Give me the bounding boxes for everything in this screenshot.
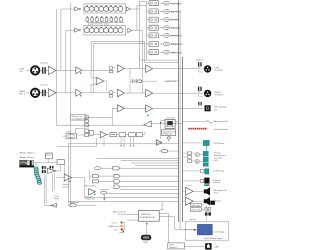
wire main level out — [123, 214, 139, 220]
svg-text:GPU: GPU — [214, 160, 219, 162]
svg-text:amp in: amp in — [119, 232, 124, 234]
svg-text:Main Level Out: Main Level Out — [113, 210, 127, 213]
svg-text:Phono: Phono — [20, 157, 27, 159]
send tag row 3 — [92, 180, 120, 184]
legend wires — [123, 223, 125, 230]
wire speaker A — [183, 185, 204, 191]
external preamp block — [183, 178, 210, 186]
wire master controller leads — [159, 201, 183, 243]
capacitor C2 input 2 coupling — [42, 90, 46, 97]
wire channel1 to sum — [124, 68, 145, 70]
LCD display screen — [197, 224, 212, 235]
svg-text:USB: USB — [143, 242, 148, 244]
bus line 6 — [120, 175, 179, 177]
op-amp U3 input 1 preamp — [48, 66, 56, 74]
svg-text:Gain Reduction: Gain Reduction — [214, 128, 229, 131]
gps ring block — [183, 169, 209, 174]
wire audio interface to lan — [184, 245, 205, 247]
wire aux bus vertical — [140, 1, 179, 62]
wire rcm stem — [205, 146, 207, 152]
wire speaker B — [183, 200, 204, 202]
svg-text:feedback ctl: feedback ctl — [86, 198, 96, 201]
DSP GPU block — [165, 117, 175, 129]
crossfade box — [57, 160, 64, 165]
capacitor C1 input 1 coupling — [42, 67, 46, 74]
EQ bank 1 box — [84, 4, 126, 13]
digital effects box — [162, 130, 176, 136]
op-amp U22 speaker amp B — [185, 197, 193, 205]
node effects output — [167, 137, 170, 139]
svg-text:disp link: disp link — [189, 219, 196, 221]
wire pan links — [130, 69, 179, 94]
LCD panel outer box — [185, 222, 228, 240]
aux row 6 — [147, 42, 184, 47]
led D2 channel 2 — [80, 95, 82, 97]
summing node boxes — [85, 116, 93, 137]
process module group — [183, 151, 209, 166]
led D1 channel 1 — [80, 72, 82, 74]
svg-text:reverb out: reverb out — [171, 35, 182, 38]
connector J4 XLR right output — [199, 90, 212, 97]
svg-text:phantom: phantom — [41, 84, 49, 87]
aux row 7 — [147, 50, 183, 55]
aux send rows — [147, 1, 184, 55]
wire left inner border — [67, 144, 69, 202]
bus line 12 — [68, 200, 178, 202]
wire chain return — [57, 132, 145, 147]
wire mono sum taps — [91, 70, 107, 93]
wire rcm feed — [183, 142, 204, 144]
bus line 10 — [107, 192, 179, 194]
wire left output run — [153, 68, 198, 70]
op-amp U6 channel 1 post — [118, 65, 125, 73]
svg-text:OUTPUT: OUTPUT — [214, 94, 224, 96]
wire eq1 output drop — [130, 6, 139, 69]
wire monitor to hp amp — [56, 9, 143, 125]
arrow into master controller — [146, 223, 148, 235]
svg-text:front: front — [214, 191, 219, 194]
node gnd oval — [161, 150, 167, 153]
wire phono section — [34, 159, 85, 198]
svg-text:LAN: LAN — [214, 245, 219, 248]
svg-text:speaker: speaker — [214, 199, 222, 202]
svg-text:amp out: amp out — [63, 185, 70, 188]
ratio pot box — [129, 133, 136, 137]
svg-text:mon mix: mon mix — [171, 27, 181, 30]
wire right output run — [153, 92, 198, 94]
master controller box — [138, 210, 159, 221]
transformer T1 coiled cable — [34, 167, 41, 184]
svg-text:fx send: fx send — [171, 19, 179, 22]
EQ fader row boxes — [86, 16, 122, 21]
arrow feedback down — [104, 194, 106, 200]
arrow into lcd — [183, 229, 194, 231]
op-amp U10 headphone pre — [118, 105, 125, 112]
wire eq2 output drop — [132, 1, 142, 93]
led D3 headphone — [147, 115, 148, 116]
svg-text:balance: balance — [196, 60, 203, 62]
connector J1 XLR input 1 — [27, 66, 41, 76]
arrow gpu feed — [160, 122, 162, 124]
svg-text:delay send: delay send — [171, 43, 183, 46]
aux row 4 — [147, 25, 181, 30]
capacitor C8 phono input — [42, 166, 46, 173]
svg-text:Vision (Master) Apps: Vision (Master) Apps — [204, 237, 222, 240]
svg-text:power amp: power amp — [191, 210, 200, 212]
wire eq send bus corner 1 — [91, 41, 144, 70]
amp block R — [190, 208, 201, 212]
connector J5 headphone jack — [205, 105, 211, 111]
op-amp U14 monitor return — [144, 121, 152, 127]
svg-text:USB&Line in: USB&Line in — [108, 226, 119, 228]
wire channel1 row — [82, 68, 118, 70]
wire cap bank risers — [44, 173, 54, 205]
svg-text:out headphones: out headphones — [72, 117, 85, 120]
bus line 7 — [120, 180, 179, 182]
aux row 2 — [147, 9, 182, 14]
node sampling oval — [69, 204, 77, 207]
connector J3 XLR left output — [199, 65, 212, 72]
EQ bank 2 box — [84, 25, 126, 35]
svg-text:mic in: mic in — [112, 222, 117, 224]
connector J2 XLR input 2 — [27, 88, 41, 98]
wire input 1 to riser — [40, 69, 76, 71]
wire right border line 2 — [179, 10, 181, 222]
speaker B icon — [204, 197, 210, 205]
wire headphone row — [124, 107, 145, 109]
op-amp U7 channel 2 gain — [76, 89, 82, 96]
node level ticks — [118, 213, 122, 215]
bus line 2 — [121, 160, 179, 162]
svg-text:mon send: mon send — [171, 2, 182, 5]
bus line 11 — [84, 196, 178, 198]
op-amp U12 right output driver — [146, 89, 153, 97]
op-amp U11 left output driver — [146, 65, 153, 73]
op-amp U19 phono amp — [47, 168, 56, 173]
wire monitor return right — [151, 123, 182, 125]
wireless receiver box — [45, 153, 52, 159]
wire main left border — [70, 3, 72, 207]
bus line 0 — [68, 143, 178, 145]
gain reduction dotted line — [188, 128, 206, 130]
capacitor C6 right output — [198, 87, 202, 91]
media thumbnail box — [20, 160, 34, 167]
op-amp U9 channel 2 post — [118, 89, 125, 97]
wire input 2 to riser — [40, 92, 76, 94]
op-amp U18 cap return — [50, 203, 56, 207]
send tag row 2 — [90, 170, 121, 182]
audio interface box — [168, 243, 185, 249]
op-amp U17 acoustic feedback — [89, 189, 96, 195]
bus line 4 — [135, 164, 179, 166]
svg-text:Media in: Media in — [27, 157, 34, 159]
threshold pot box — [119, 133, 126, 137]
buffer A1 eq1 input — [75, 7, 79, 11]
op-amp U13 headphone driver — [146, 105, 153, 112]
wire sampling line — [50, 204, 96, 206]
send tag row 4 — [114, 185, 120, 189]
op-amp U8 mono sum — [96, 77, 104, 85]
wire pot stems down — [97, 137, 134, 147]
bus line 3 — [131, 162, 179, 164]
svg-text:bank): bank) — [54, 198, 59, 200]
capacitor C7 headphone output — [198, 102, 202, 106]
wire eq send bus corner 2 — [94, 43, 147, 92]
connector USB port — [141, 235, 151, 244]
svg-text:MIC 2: MIC 2 — [20, 93, 26, 95]
bus line 5 — [120, 167, 179, 169]
svg-text:HPs preamp: HPs preamp — [214, 106, 227, 109]
limiter block — [62, 128, 85, 138]
wire right border line 1 — [178, 1, 180, 223]
op-amp U4 input 2 preamp — [48, 89, 56, 97]
op-amp U15 compressor amp — [100, 131, 106, 137]
wire channel2 riser — [66, 30, 75, 93]
wire sum to compressor — [93, 134, 100, 136]
compressor gain cell — [110, 133, 117, 137]
bus line 1 — [97, 157, 179, 159]
wire cap return left — [44, 204, 50, 206]
wire oval lead — [159, 150, 179, 152]
svg-text:Interface: Interface — [169, 246, 176, 249]
svg-text:1x/GPS ring: 1x/GPS ring — [213, 170, 224, 172]
attack pot box — [137, 133, 143, 137]
aux row 1 — [147, 1, 182, 6]
svg-text:out: out — [214, 108, 217, 111]
svg-text:main send: main send — [171, 51, 183, 54]
connector LAN port — [205, 243, 211, 249]
op-amp U1 eq1 output — [126, 7, 130, 11]
op-amp U16 fx return — [156, 140, 162, 146]
svg-text:LCD Display: LCD Display — [213, 231, 224, 233]
legend block — [108, 221, 125, 233]
wire right border line 3 — [182, 57, 184, 222]
aux row 3 — [147, 17, 180, 22]
svg-text:limiter: limiter — [67, 131, 72, 134]
led D4 feedback — [94, 194, 95, 195]
svg-text:mixer amp: mixer amp — [191, 205, 199, 207]
psu component cluster — [201, 201, 215, 222]
svg-text:MASTER: MASTER — [142, 213, 152, 216]
wire eq1 aux feeder — [140, 0, 147, 2]
wire channel1 riser — [61, 9, 75, 70]
bus line 9 — [100, 188, 178, 190]
monitor block — [71, 115, 87, 121]
svg-text:phantom: phantom — [41, 61, 49, 64]
svg-text:OUTPUT: OUTPUT — [214, 70, 224, 72]
svg-text:inst: inst — [114, 228, 118, 231]
potentiometer VR1 channel1 level — [109, 66, 113, 73]
op-amp U20 line amp — [64, 174, 71, 181]
svg-text:aux send: aux send — [171, 11, 181, 14]
label alternative tool — [183, 120, 229, 123]
pan bowtie — [132, 79, 136, 83]
svg-text:preamp: preamp — [213, 182, 221, 184]
capacitor C9 on wire — [50, 166, 54, 169]
led D5 headset amp — [69, 181, 70, 182]
op-amp U2 eq2 output — [128, 28, 132, 32]
wire headphone output run — [153, 108, 204, 110]
svg-text:size input: size input — [214, 157, 223, 160]
buffer A2 eq2 input — [75, 28, 79, 32]
wire channel2 to sum — [124, 92, 145, 94]
wire channel2 row — [82, 91, 116, 94]
bus line 8 — [120, 186, 179, 188]
node pan oval — [138, 80, 142, 83]
meter block RCM — [203, 140, 209, 145]
wire eq2 aux feeder — [137, 5, 147, 7]
svg-text:Mic/Line/Inst: Mic/Line/Inst — [85, 185, 97, 188]
svg-text:RCM meter: RCM meter — [214, 142, 225, 145]
EQ bank 2 knobs — [84, 27, 122, 33]
svg-text:Media in: Media in — [27, 152, 34, 154]
op-amp U21 speaker amp A — [185, 187, 193, 195]
wire compressor chain — [107, 134, 137, 136]
svg-text:feedback ctrl: feedback ctrl — [163, 132, 173, 135]
node feedback tap — [101, 191, 107, 194]
capacitor C5 left output — [198, 62, 202, 66]
speaker A icon — [204, 187, 210, 195]
send tag row 1 — [95, 166, 121, 170]
svg-text:Alternative Tool: Alternative Tool — [214, 120, 229, 123]
aux row 5 — [147, 33, 182, 38]
svg-text:Phono: Phono — [20, 152, 27, 154]
svg-text:Output Level: Output Level — [164, 80, 177, 83]
op-amp U5 channel 1 gain — [76, 67, 82, 74]
potentiometer VR2 channel2 level — [109, 90, 113, 97]
wire gpu leads — [156, 121, 178, 143]
EQ bank 1 knobs — [84, 5, 122, 11]
amp block L — [190, 203, 201, 207]
svg-text:CONTROLLER: CONTROLLER — [140, 217, 155, 219]
